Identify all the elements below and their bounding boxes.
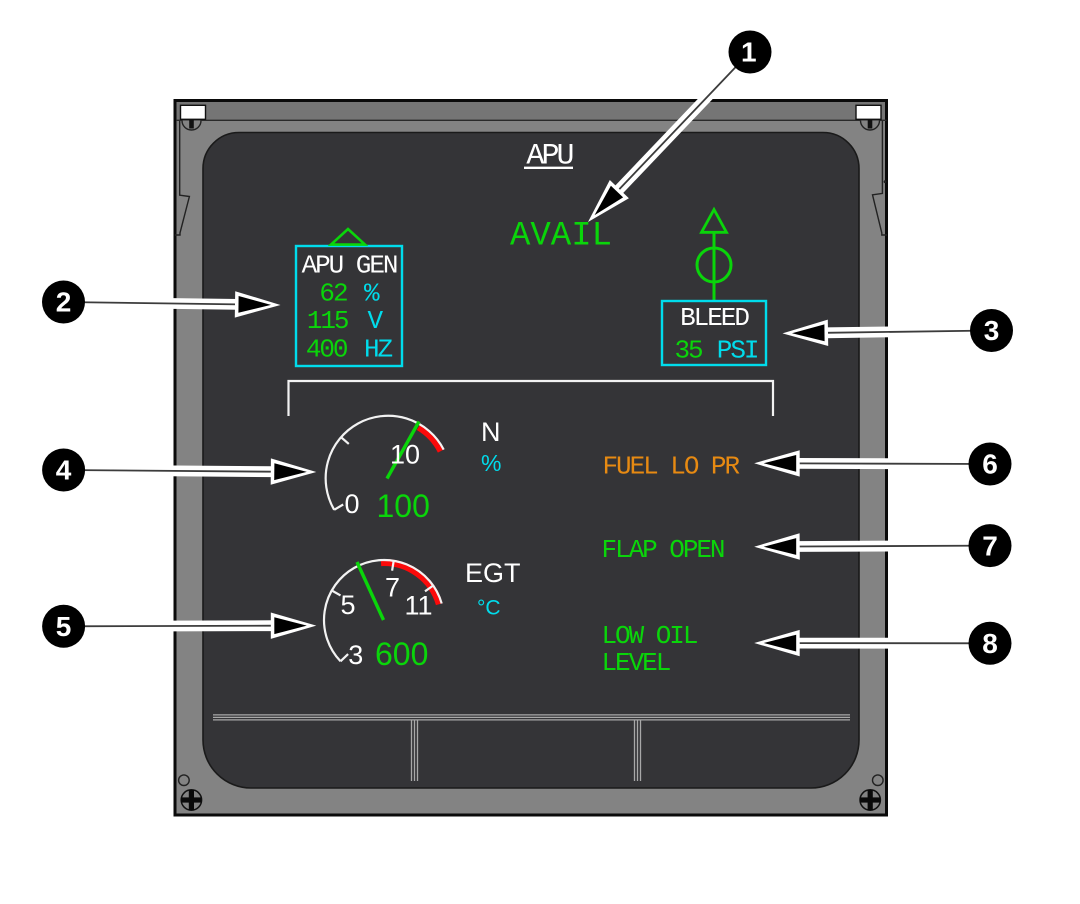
bracket line over gauges <box>289 381 774 416</box>
EGT gauge needle <box>357 562 384 620</box>
callout arrow 2 <box>64 291 281 317</box>
bottom small hole right <box>873 775 884 786</box>
callout arrow 3 <box>783 320 992 346</box>
bleed valve symbol <box>713 233 716 301</box>
callout arrow 5 <box>64 613 317 639</box>
svg-text:6: 6 <box>982 449 998 480</box>
svg-text:35: 35 <box>675 336 703 366</box>
top screw left <box>182 121 201 131</box>
left bezel notch <box>175 121 190 235</box>
svg-text:°C: °C <box>477 597 501 620</box>
APU GEN triangle pointer <box>331 229 365 245</box>
BLEED box <box>662 301 766 365</box>
N gauge tick <box>341 437 349 444</box>
callout arrow 4 <box>64 458 317 484</box>
svg-text:APU GEN: APU GEN <box>302 251 397 281</box>
svg-text:11: 11 <box>404 591 432 621</box>
svg-text:BLEED: BLEED <box>680 303 749 333</box>
svg-text:115: 115 <box>307 306 348 336</box>
bottom phillips screw at x=870.2 <box>860 790 880 810</box>
svg-text:5: 5 <box>340 590 355 620</box>
svg-text:HZ: HZ <box>364 335 393 365</box>
svg-text:2: 2 <box>56 287 72 318</box>
svg-text:FLAP OPEN: FLAP OPEN <box>602 535 724 565</box>
svg-text:7: 7 <box>385 573 400 603</box>
svg-text:FUEL LO PR: FUEL LO PR <box>603 452 740 482</box>
svg-text:5: 5 <box>56 611 72 642</box>
svg-text:8: 8 <box>982 628 998 659</box>
display bezel outer frame <box>175 101 887 816</box>
svg-text:3: 3 <box>984 315 1000 346</box>
N gauge white arc <box>326 416 444 510</box>
svg-text:4: 4 <box>56 455 72 486</box>
svg-text:LOW OIL: LOW OIL <box>602 621 697 651</box>
svg-text:LEVEL: LEVEL <box>602 648 670 678</box>
svg-text:600: 600 <box>375 636 428 672</box>
CRT screen <box>203 133 859 789</box>
right bezel notch <box>873 121 888 235</box>
svg-text:7: 7 <box>982 530 998 561</box>
callout circle 2 <box>42 281 85 324</box>
callout circle 4 <box>42 449 85 492</box>
callout circle 7 <box>969 524 1012 567</box>
EGT gauge ticks <box>332 591 341 596</box>
callout circle 1 <box>729 31 772 74</box>
bleed arrow triangle <box>702 210 727 233</box>
callout arrow 7 <box>754 533 990 559</box>
EGT gauge white arc <box>324 560 442 661</box>
bottom bezel triple horizontal lines <box>213 714 850 716</box>
svg-text:3: 3 <box>348 640 363 670</box>
callout circle 8 <box>969 622 1012 665</box>
svg-text:1: 1 <box>741 37 757 68</box>
svg-text:N: N <box>481 417 501 447</box>
svg-text:PSI: PSI <box>717 336 758 366</box>
callout arrow 1 <box>588 52 750 222</box>
svg-text:400: 400 <box>306 335 347 365</box>
svg-text:0: 0 <box>344 489 359 519</box>
N gauge needle <box>387 422 419 479</box>
callout circle 6 <box>969 443 1012 486</box>
N gauge red band <box>419 427 441 451</box>
bottom small hole left <box>179 775 190 786</box>
top screw right <box>861 121 880 131</box>
top latch right <box>856 105 881 119</box>
svg-text:100: 100 <box>377 488 430 524</box>
svg-text:62: 62 <box>319 279 347 309</box>
APU GEN box <box>296 246 402 366</box>
svg-text:%: % <box>481 450 501 476</box>
callout arrow 8 <box>754 630 990 656</box>
callout circle 5 <box>42 605 85 648</box>
callout arrow 6 <box>754 450 990 476</box>
bezel top strip <box>177 102 886 120</box>
svg-text:EGT: EGT <box>465 558 521 588</box>
top latch left <box>181 105 206 119</box>
bottom bezel vertical divider lines <box>411 721 413 782</box>
bottom phillips screw at x=191.4 <box>181 790 201 810</box>
svg-text:AVAIL: AVAIL <box>510 218 612 256</box>
callout circle 3 <box>970 309 1013 352</box>
EGT gauge red band <box>381 563 439 605</box>
svg-text:10: 10 <box>390 440 420 470</box>
